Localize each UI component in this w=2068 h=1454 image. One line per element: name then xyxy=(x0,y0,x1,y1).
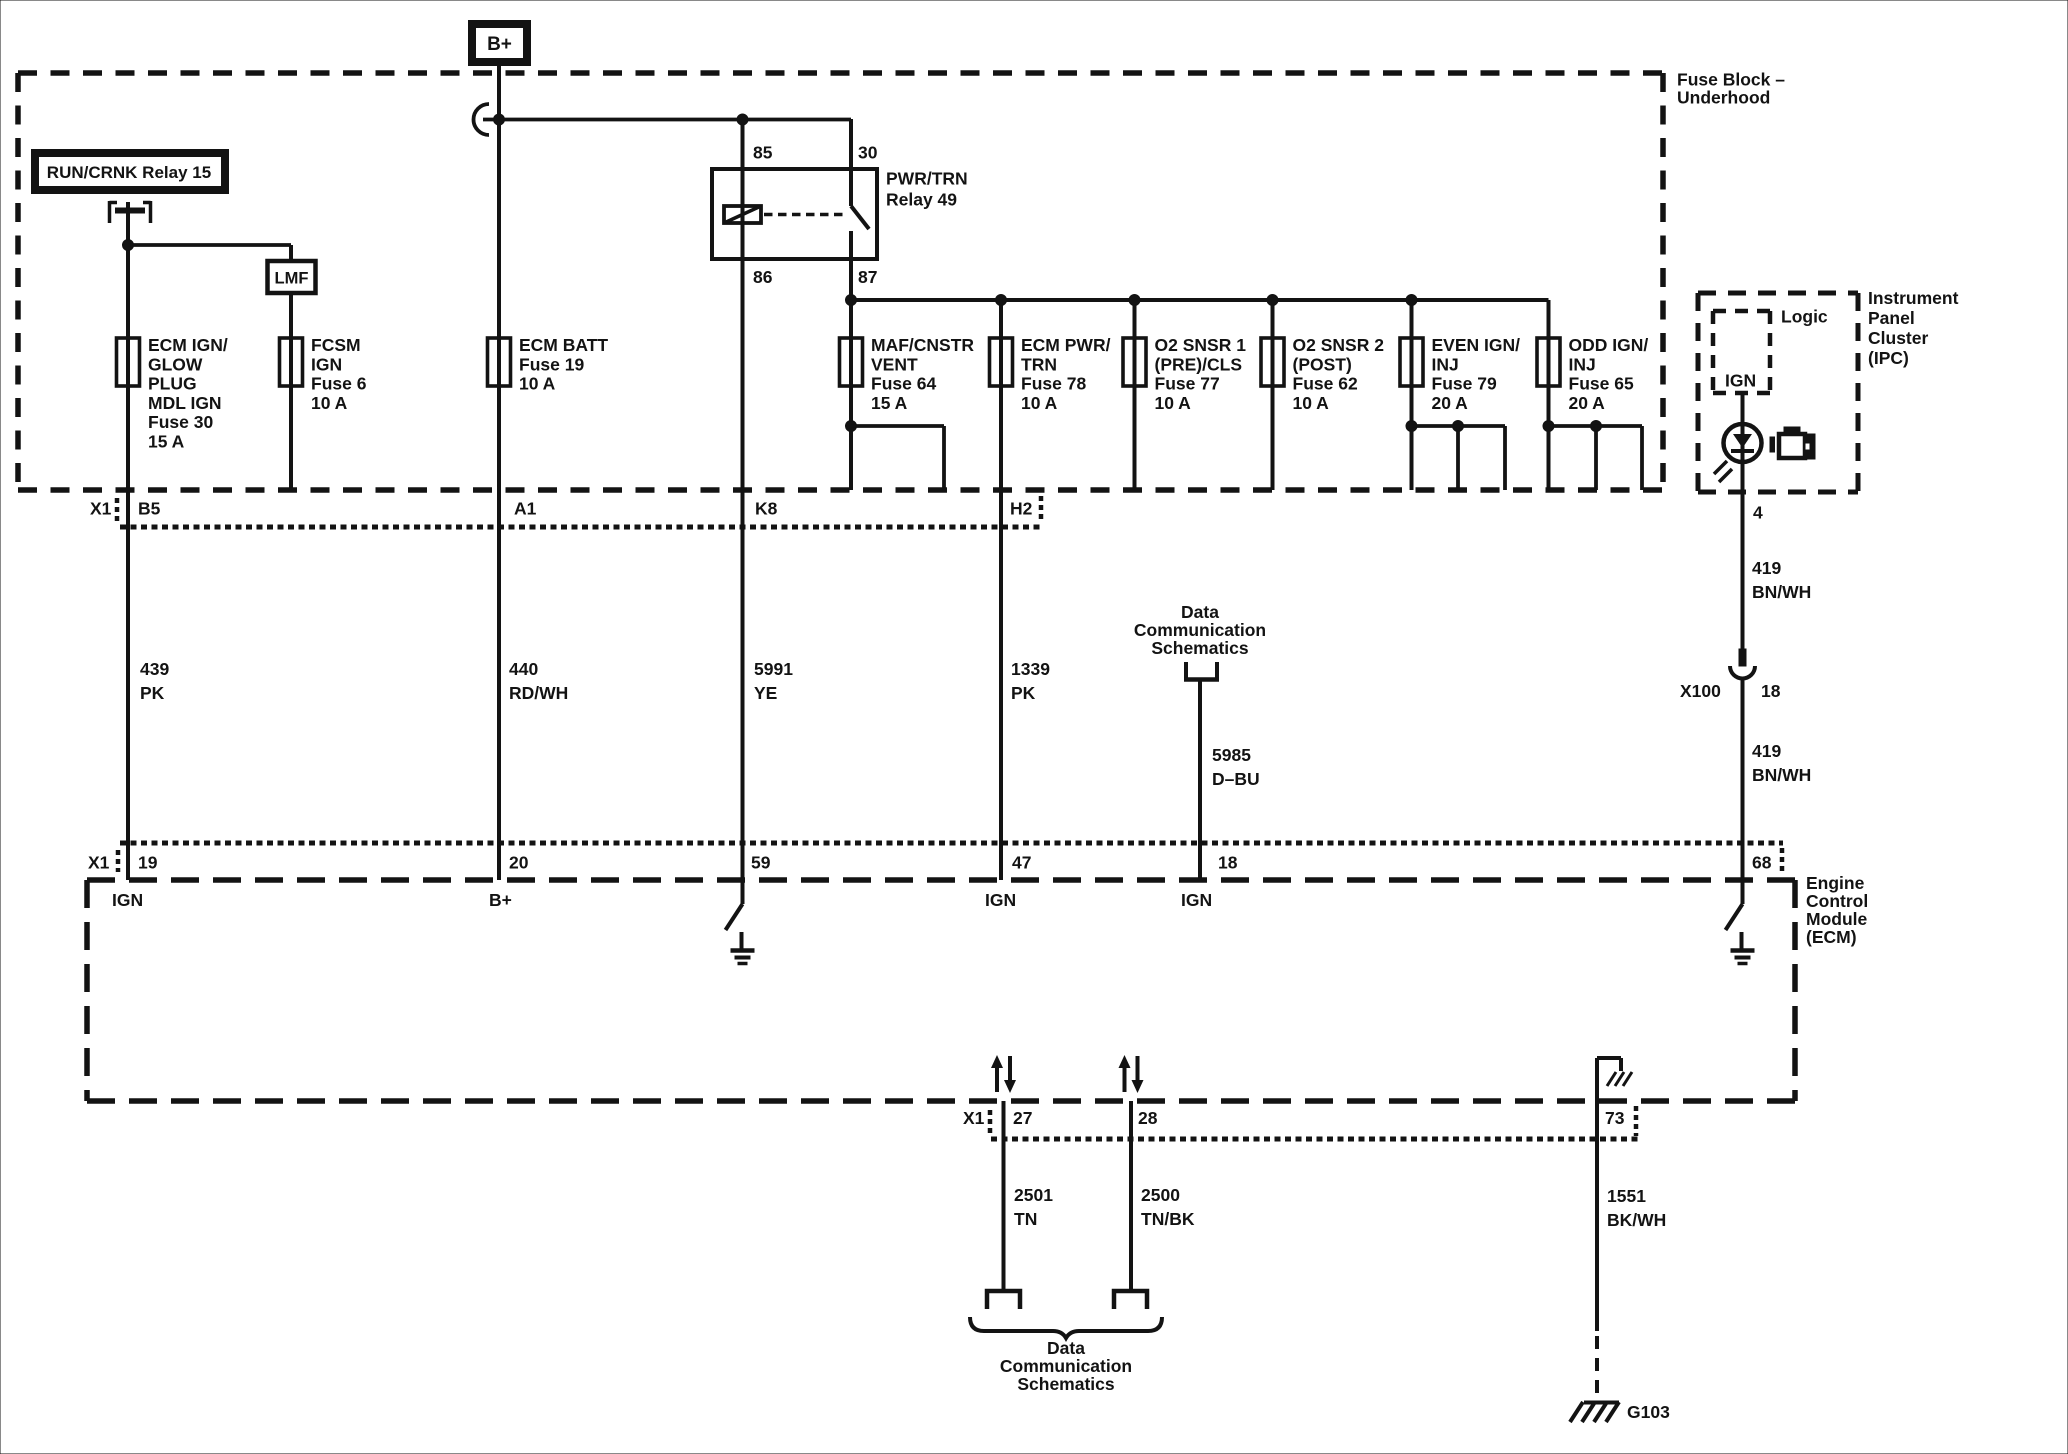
svg-text:BN/WH: BN/WH xyxy=(1752,582,1811,602)
svg-text:O2 SNSR 2: O2 SNSR 2 xyxy=(1293,335,1385,355)
svg-text:VENT: VENT xyxy=(871,354,918,374)
svg-text:IGN: IGN xyxy=(112,890,143,910)
svg-text:X1: X1 xyxy=(963,1108,985,1128)
svg-text:IGN: IGN xyxy=(1181,890,1212,910)
svg-text:Communication: Communication xyxy=(1000,1356,1132,1376)
svg-text:2500: 2500 xyxy=(1141,1185,1180,1205)
svg-text:(ECM): (ECM) xyxy=(1806,927,1857,947)
svg-text:Panel: Panel xyxy=(1868,308,1915,328)
svg-text:440: 440 xyxy=(509,659,538,679)
svg-text:IGN: IGN xyxy=(1725,371,1756,391)
svg-text:20: 20 xyxy=(509,853,529,873)
svg-text:H2: H2 xyxy=(1010,499,1033,519)
svg-text:RUN/CRNK Relay 15: RUN/CRNK Relay 15 xyxy=(47,163,211,182)
svg-text:INJ: INJ xyxy=(1432,354,1459,374)
svg-text:B+: B+ xyxy=(489,890,512,910)
svg-text:MDL IGN: MDL IGN xyxy=(148,393,222,413)
svg-text:Fuse 30: Fuse 30 xyxy=(148,412,213,432)
svg-text:85: 85 xyxy=(753,143,773,163)
svg-text:Fuse 62: Fuse 62 xyxy=(1293,374,1358,394)
svg-text:LMF: LMF xyxy=(275,270,309,288)
svg-text:Instrument: Instrument xyxy=(1868,288,1959,308)
svg-text:BN/WH: BN/WH xyxy=(1752,765,1811,785)
svg-text:X100: X100 xyxy=(1680,681,1721,701)
svg-text:2501: 2501 xyxy=(1014,1185,1053,1205)
svg-text:27: 27 xyxy=(1013,1108,1032,1128)
svg-text:10 A: 10 A xyxy=(1293,393,1330,413)
svg-text:IGN: IGN xyxy=(311,354,342,374)
svg-text:A1: A1 xyxy=(514,499,537,519)
svg-text:Data: Data xyxy=(1047,1338,1085,1358)
svg-text:Cluster: Cluster xyxy=(1868,328,1928,348)
svg-text:Communication: Communication xyxy=(1134,620,1266,640)
svg-text:O2 SNSR 1: O2 SNSR 1 xyxy=(1155,335,1247,355)
svg-text:59: 59 xyxy=(751,853,771,873)
svg-text:20 A: 20 A xyxy=(1432,393,1469,413)
svg-text:(IPC): (IPC) xyxy=(1868,348,1909,368)
svg-text:1551: 1551 xyxy=(1607,1186,1646,1206)
svg-text:47: 47 xyxy=(1012,853,1031,873)
svg-text:10 A: 10 A xyxy=(1155,393,1192,413)
svg-text:FCSM: FCSM xyxy=(311,335,361,355)
svg-text:Fuse 19: Fuse 19 xyxy=(519,354,584,374)
svg-text:ECM IGN/: ECM IGN/ xyxy=(148,335,228,355)
svg-text:K8: K8 xyxy=(755,499,778,519)
svg-text:Module: Module xyxy=(1806,909,1868,929)
svg-text:10 A: 10 A xyxy=(1021,393,1058,413)
svg-text:Schematics: Schematics xyxy=(1017,1374,1115,1394)
svg-text:Fuse 79: Fuse 79 xyxy=(1432,374,1497,394)
svg-text:419: 419 xyxy=(1752,558,1781,578)
svg-text:BK/WH: BK/WH xyxy=(1607,1210,1666,1230)
svg-text:5985: 5985 xyxy=(1212,745,1251,765)
svg-text:19: 19 xyxy=(138,853,158,873)
svg-text:68: 68 xyxy=(1752,853,1772,873)
svg-text:87: 87 xyxy=(858,267,877,287)
svg-text:IGN: IGN xyxy=(985,890,1016,910)
svg-text:Schematics: Schematics xyxy=(1151,638,1249,658)
svg-text:Fuse 77: Fuse 77 xyxy=(1155,374,1220,394)
svg-text:Fuse 6: Fuse 6 xyxy=(311,374,367,394)
svg-text:INJ: INJ xyxy=(1569,354,1596,374)
svg-text:PLUG: PLUG xyxy=(148,374,197,394)
svg-text:GLOW: GLOW xyxy=(148,354,203,374)
svg-text:Data: Data xyxy=(1181,602,1219,622)
svg-text:5991: 5991 xyxy=(754,659,793,679)
svg-text:28: 28 xyxy=(1138,1108,1158,1128)
svg-text:18: 18 xyxy=(1761,681,1781,701)
svg-text:1339: 1339 xyxy=(1011,659,1050,679)
svg-text:PK: PK xyxy=(140,683,165,703)
svg-text:ODD IGN/: ODD IGN/ xyxy=(1569,335,1649,355)
svg-text:(POST): (POST) xyxy=(1293,354,1352,374)
svg-text:PK: PK xyxy=(1011,683,1036,703)
svg-text:RD/WH: RD/WH xyxy=(509,683,568,703)
svg-text:TN: TN xyxy=(1014,1209,1037,1229)
svg-text:Engine: Engine xyxy=(1806,873,1865,893)
svg-text:18: 18 xyxy=(1218,853,1238,873)
svg-text:B5: B5 xyxy=(138,499,161,519)
svg-text:Fuse Block –: Fuse Block – xyxy=(1677,70,1785,90)
svg-text:MAF/CNSTR: MAF/CNSTR xyxy=(871,335,974,355)
svg-text:73: 73 xyxy=(1605,1108,1625,1128)
svg-text:15 A: 15 A xyxy=(148,432,185,452)
svg-text:4: 4 xyxy=(1753,503,1763,523)
svg-text:419: 419 xyxy=(1752,741,1781,761)
svg-text:B+: B+ xyxy=(487,34,512,55)
svg-text:10 A: 10 A xyxy=(311,393,348,413)
svg-text:TRN: TRN xyxy=(1021,354,1057,374)
svg-text:Fuse 65: Fuse 65 xyxy=(1569,374,1634,394)
svg-text:D–BU: D–BU xyxy=(1212,769,1260,789)
svg-text:20 A: 20 A xyxy=(1569,393,1606,413)
svg-text:PWR/TRN: PWR/TRN xyxy=(886,169,968,189)
svg-text:439: 439 xyxy=(140,659,169,679)
svg-text:ECM BATT: ECM BATT xyxy=(519,335,608,355)
svg-text:Fuse 64: Fuse 64 xyxy=(871,374,936,394)
svg-text:X1: X1 xyxy=(88,853,110,873)
svg-text:Fuse 78: Fuse 78 xyxy=(1021,374,1086,394)
svg-text:ECM PWR/: ECM PWR/ xyxy=(1021,335,1111,355)
svg-text:86: 86 xyxy=(753,267,773,287)
svg-text:(PRE)/CLS: (PRE)/CLS xyxy=(1155,354,1243,374)
svg-text:Logic: Logic xyxy=(1781,307,1828,327)
svg-text:TN/BK: TN/BK xyxy=(1141,1209,1195,1229)
svg-text:Underhood: Underhood xyxy=(1677,88,1770,108)
svg-text:YE: YE xyxy=(754,683,777,703)
svg-text:X1: X1 xyxy=(90,499,112,519)
svg-text:G103: G103 xyxy=(1627,1402,1670,1422)
svg-text:15 A: 15 A xyxy=(871,393,908,413)
svg-text:30: 30 xyxy=(858,143,878,163)
svg-text:Control: Control xyxy=(1806,891,1868,911)
svg-text:10 A: 10 A xyxy=(519,374,556,394)
svg-text:EVEN IGN/: EVEN IGN/ xyxy=(1432,335,1521,355)
svg-text:Relay 49: Relay 49 xyxy=(886,190,957,210)
